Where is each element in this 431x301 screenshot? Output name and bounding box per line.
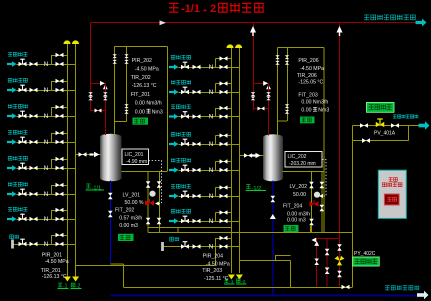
pipe: flare drop to V2 PSV [253, 23, 255, 111]
pipe: liquid header (LV loops to drain station) [148, 231, 352, 233]
button 流量 (V1 gas) [133, 118, 149, 125]
pipe: drain down leg [122, 264, 124, 287]
title text 分-1/1、2操作流程 [169, 3, 263, 15]
svg-text:PY_402C: PY_402C [354, 251, 376, 257]
label TIR_201 values [41, 268, 67, 280]
pipe: drain station right leg [352, 232, 354, 287]
svg-text:N: N [209, 193, 213, 200]
block valve LV202 left bottom [309, 219, 314, 226]
block valve LV201 left bottom [146, 218, 151, 225]
svg-text:FIT_201: FIT_201 [131, 92, 150, 98]
svg-text:-4.50 MPa: -4.50 MPa [45, 259, 69, 265]
label LV_202 [290, 184, 308, 198]
svg-text:-4.90 mm: -4.90 mm [126, 159, 147, 165]
svg-text:N: N [44, 87, 48, 94]
pipe: V2 PSV riser to vessel [268, 83, 270, 135]
svg-text:N: N [209, 244, 213, 251]
pipe: LV202 loop drop to liquid header [309, 226, 311, 232]
valve on PY402C left leg [314, 259, 319, 266]
control valve PY_402C (fan symbol) [335, 256, 345, 266]
label PIR_201 values [42, 253, 69, 265]
left header 1 outlet triangle [64, 277, 71, 282]
svg-text:N: N [44, 216, 48, 223]
label TIR_206 value [297, 73, 324, 86]
root valves on V1 mid tap top [124, 54, 128, 63]
well inlet row 3 (middle group) [169, 105, 239, 121]
pipe: V2 feed line [239, 155, 263, 157]
pipe: V2 instrument left tap [277, 48, 279, 136]
label 至-2 under middle header 2 [236, 279, 247, 285]
root valves on V2 left tap [275, 55, 279, 64]
svg-text:TIR_202: TIR_202 [131, 75, 151, 81]
pipe: V1 liquid drain [109, 181, 111, 264]
instrument box LIC_202 [285, 152, 322, 168]
svg-text:N: N [44, 61, 48, 68]
pipe: V2 PSV bypass [253, 108, 269, 110]
svg-text:N: N [209, 89, 213, 96]
button 流量 (V1 liquid) [118, 234, 134, 241]
label PIR_204 values [203, 254, 230, 268]
block valve LV202 right bottom [320, 205, 325, 212]
flow arrow into V1 [90, 153, 94, 155]
svg-text:0.00: 0.00 [135, 109, 145, 115]
pipe: LV202 loop left leg [311, 171, 313, 232]
block valve on V1 PSV right leg [103, 92, 108, 100]
svg-text:N: N [209, 64, 213, 71]
button 控制按钮 (PY402C) [353, 257, 380, 266]
svg-text:N: N [44, 139, 48, 146]
svg-text:FIT_202: FIT_202 [115, 207, 134, 213]
pipe: V2 PSV top header [253, 82, 269, 84]
well inlet row 3 (left group) [7, 104, 76, 120]
root valves on V2 mid tap top [285, 55, 289, 64]
label FIT_204 values [283, 204, 310, 224]
button 流量 (V2 liquid) [284, 225, 299, 232]
pipe: V1 instrument loop top [115, 46, 168, 48]
svg-text:50.00 %: 50.00 % [125, 200, 144, 206]
svg-text:-125.05 °C: -125.05 °C [298, 79, 323, 85]
pipe: PV401A bypass [352, 126, 354, 141]
well inlet row 1 (middle group) [169, 55, 239, 71]
pipe: LV201 loop bottom header [148, 226, 231, 228]
pipe: stub between liquid headers [177, 227, 179, 232]
svg-text:2: 2 [210, 3, 216, 15]
control valve LV_201 [145, 191, 156, 206]
vent dome on left header 2 [72, 40, 79, 44]
block valve LV201 right top [157, 181, 162, 188]
pipe: middle header 1 [230, 48, 232, 273]
valve on PY402C mid leg lower [325, 268, 330, 275]
valve above PY_402C [337, 244, 342, 251]
block valve LV202 left top [309, 182, 314, 189]
well inlet row 5 (middle group) [169, 158, 239, 174]
signal line LIC_201 to LV_201 [149, 161, 162, 204]
svg-text:LV_202: LV_202 [290, 184, 308, 190]
label 高压放空线去火炬 [364, 15, 415, 20]
well inlet row 4 (left group) [7, 130, 76, 146]
pipe: PV401A riser [352, 141, 354, 233]
label TIR_203 values [202, 268, 229, 282]
svg-text:PIR_204: PIR_204 [203, 254, 223, 260]
svg-text:0.57 m3/h: 0.57 m3/h [119, 215, 142, 221]
pipe: LV201 loop left leg [147, 171, 149, 232]
pipe: bottom drain header [123, 287, 352, 289]
valve on V2 feed [244, 153, 252, 158]
pipe: V1 instrument right leg [167, 47, 169, 172]
vessel 分-1/1 (separator) [100, 134, 122, 182]
svg-text:-1/1: -1/1 [181, 3, 200, 15]
well inlet row 6 (left group) [7, 182, 76, 198]
pipe: V2 gas outlet [283, 171, 324, 173]
well inlet row 5 (left group) [7, 156, 76, 172]
svg-text:N: N [209, 218, 213, 225]
svg-text:50.00: 50.00 [293, 192, 306, 198]
pipe: LV202 loop right leg [321, 171, 323, 232]
block valve LV202 right top [320, 182, 325, 189]
label FIT_201 value [131, 92, 163, 115]
pipe: V1 gas outlet [122, 171, 168, 173]
reserved inlet row (middle group) [161, 236, 239, 251]
pipe: V1 instrument mid tap [126, 47, 128, 122]
svg-text:FIT_203: FIT_203 [298, 93, 317, 99]
pipe: V1 PSV bypass [91, 110, 106, 112]
vessel 分-1/2 (separator) [263, 134, 283, 181]
well inlet row 7 (left group) [7, 207, 76, 223]
pipe: V2 instrument loop top [278, 47, 324, 49]
root valves on V1 mid tap bottom [124, 104, 128, 113]
flow arrow up at x253 [250, 26, 256, 36]
svg-text:LIC_201: LIC_201 [125, 152, 144, 158]
label 至-2 under left header 2 [71, 283, 82, 289]
label LV_201 [123, 193, 144, 207]
pipe: V1 PSV riser to vessel [104, 83, 106, 135]
pipe: HP flare header [91, 22, 416, 24]
pipe: V1 PSV top header [91, 82, 106, 84]
middle header 1 outlet triangle [228, 275, 235, 280]
well inlet row 6 (middle group) [169, 184, 239, 200]
label PIR_206 value [298, 58, 324, 72]
svg-text:Nm3: Nm3 [318, 108, 329, 114]
svg-text:-126.13 °C: -126.13 °C [42, 274, 67, 280]
svg-text:LV_201: LV_201 [123, 193, 141, 199]
svg-text:PIR_201: PIR_201 [42, 253, 62, 259]
bypass valve V1 PSV [95, 109, 102, 113]
bypass valve V2 PSV [258, 107, 265, 111]
flow arrow on flare header [160, 20, 167, 25]
valve on PY402C mid leg upper [325, 249, 330, 256]
block valve LV201 right bottom [157, 218, 162, 225]
button 控制按钮 (PV401A) [367, 103, 395, 113]
pipe: left header 1 [66, 44, 68, 277]
block valve on V2 PSV right leg [266, 92, 271, 100]
pipe: PV401A main line [353, 125, 420, 127]
signal line LIC_202 to LV_202 [322, 160, 327, 197]
svg-text:-203.20 mm: -203.20 mm [289, 161, 316, 167]
panel 全站紧急停车 (ESD) [378, 170, 406, 218]
pipe: LV201 loop right leg [159, 171, 161, 232]
pipe: produced water header [110, 295, 417, 297]
svg-text:N: N [44, 241, 48, 248]
valve on V1 feed [79, 152, 87, 157]
label 去锅炉污水罐 [385, 286, 419, 291]
valve below PY_402C [337, 271, 342, 278]
pipe: drain step from V2 [276, 255, 291, 257]
drain valve V1 lower [108, 211, 113, 218]
label 去生产分离器 [393, 115, 418, 119]
PSV relief symbol V1 [100, 81, 108, 89]
well inlet row 1 (left group) [7, 52, 76, 68]
vent dome on middle header 1 [226, 44, 233, 48]
svg-text:TIR_203: TIR_203 [202, 268, 222, 274]
control valve LV_202 [310, 192, 321, 207]
block valve PV401A downstream [391, 123, 399, 128]
pipe: PY402C mid leg [326, 238, 328, 286]
bypass valve PV401A [362, 138, 370, 143]
relief symbol at PY402C station [311, 238, 319, 246]
svg-text:0.00 Nm3/h: 0.00 Nm3/h [135, 101, 162, 107]
svg-text:TIR_206: TIR_206 [297, 73, 317, 79]
middle header 2 outlet triangle [236, 275, 243, 280]
label 至-1 under left header 1 [58, 283, 69, 289]
block valve on V2 PSV left leg [251, 92, 256, 100]
drain valve V1 upper [108, 193, 113, 200]
PSV relief symbol V2 [263, 81, 271, 89]
flare outlet arrow [416, 19, 427, 27]
flow arrow up at x339 [337, 26, 343, 36]
svg-text:0.00 m3: 0.00 m3 [287, 217, 306, 223]
svg-text:PIR_202: PIR_202 [132, 58, 152, 64]
svg-text:N: N [209, 114, 213, 121]
svg-text:FIT_204: FIT_204 [283, 204, 302, 210]
svg-text:N: N [44, 113, 48, 120]
pipe: middle header 2 [238, 48, 240, 273]
valve on bottom drain header [342, 285, 350, 290]
well inlet row 4 (middle group) [169, 132, 239, 148]
label 至-1 under middle header 1 [224, 279, 235, 285]
svg-text:PIR_206: PIR_206 [298, 58, 318, 64]
reserved inlet row (left group) [10, 233, 76, 249]
flow arrow into V2 [252, 154, 256, 156]
root valves on V2 mid tap bottom [285, 104, 289, 113]
pipe: V1 instrument left tap [114, 47, 116, 136]
pipe: left gas collect line [76, 264, 216, 266]
label 分-1/1 [86, 184, 105, 191]
vent dome on left header 1 [63, 40, 70, 44]
svg-text:N: N [44, 165, 48, 172]
button 流量 (V2 gas) [300, 117, 315, 124]
pipe: PY402C left leg [316, 238, 318, 286]
svg-text:-4.50 MPa: -4.50 MPa [206, 262, 230, 268]
svg-text:-126.13 °C: -126.13 °C [132, 83, 157, 89]
block valve on V1 PSV left leg [88, 92, 93, 100]
pipe: left header 2 [75, 44, 77, 277]
label PIR_202 value [132, 58, 159, 73]
svg-text:N: N [209, 167, 213, 174]
outlet arrow to production separator [419, 121, 430, 130]
well inlet row 2 (middle group) [169, 80, 239, 96]
pipe: flare drop to PY-402C [339, 23, 341, 287]
pipe: V1 feed line [76, 154, 101, 156]
label TIR_202 value [131, 75, 157, 89]
pipe: middle collect drop [289, 260, 291, 287]
svg-text:Nm3: Nm3 [152, 109, 163, 115]
label 分-1/2 [246, 184, 267, 191]
left header 2 outlet triangle [72, 277, 79, 282]
svg-text:0.00 m3: 0.00 m3 [119, 223, 138, 229]
block valve PV401A upstream [360, 123, 368, 128]
svg-text:-4.50 MPa: -4.50 MPa [300, 66, 324, 72]
svg-text:-4.50 MPa: -4.50 MPa [135, 67, 159, 73]
flow arrow on V2 drain [270, 214, 276, 219]
well inlet row 2 (left group) [7, 78, 76, 94]
pipe: riser reserved row to collect line [214, 247, 216, 266]
block valve LV201 left top [146, 181, 151, 188]
svg-text:-125.11 °C: -125.11 °C [204, 276, 229, 282]
root valves on V1 left tap [113, 54, 117, 63]
svg-text:PV_401A: PV_401A [374, 131, 396, 137]
pipe: middle gas collect line [239, 259, 290, 261]
pipe: PY402C top cross header [317, 237, 340, 239]
vent dome on middle header 2 [235, 44, 242, 48]
water outlet arrow [417, 291, 429, 300]
control valve PV_401A [376, 119, 385, 127]
well inlet row 7 (middle group) [169, 209, 239, 225]
drain valve V2 [271, 196, 276, 203]
label FIT_203 value [298, 93, 329, 114]
label FIT_202 values [115, 207, 142, 229]
pipe: V2 liquid drain [272, 181, 274, 296]
svg-text:LIC_202: LIC_202 [288, 154, 307, 160]
pipe: V1 drain elbow [110, 263, 123, 265]
pipe: flare drop to V1 PSV [90, 23, 92, 111]
instrument box LIC_201 [122, 149, 149, 165]
pipe: V2 instrument mid tap [287, 48, 289, 121]
svg-text:0.00: 0.00 [301, 108, 311, 114]
svg-text:0.00 Nm3/h: 0.00 Nm3/h [301, 100, 328, 106]
svg-text:N: N [44, 191, 48, 198]
svg-text:N: N [209, 141, 213, 148]
pipe: V2 instrument right leg [323, 48, 325, 233]
